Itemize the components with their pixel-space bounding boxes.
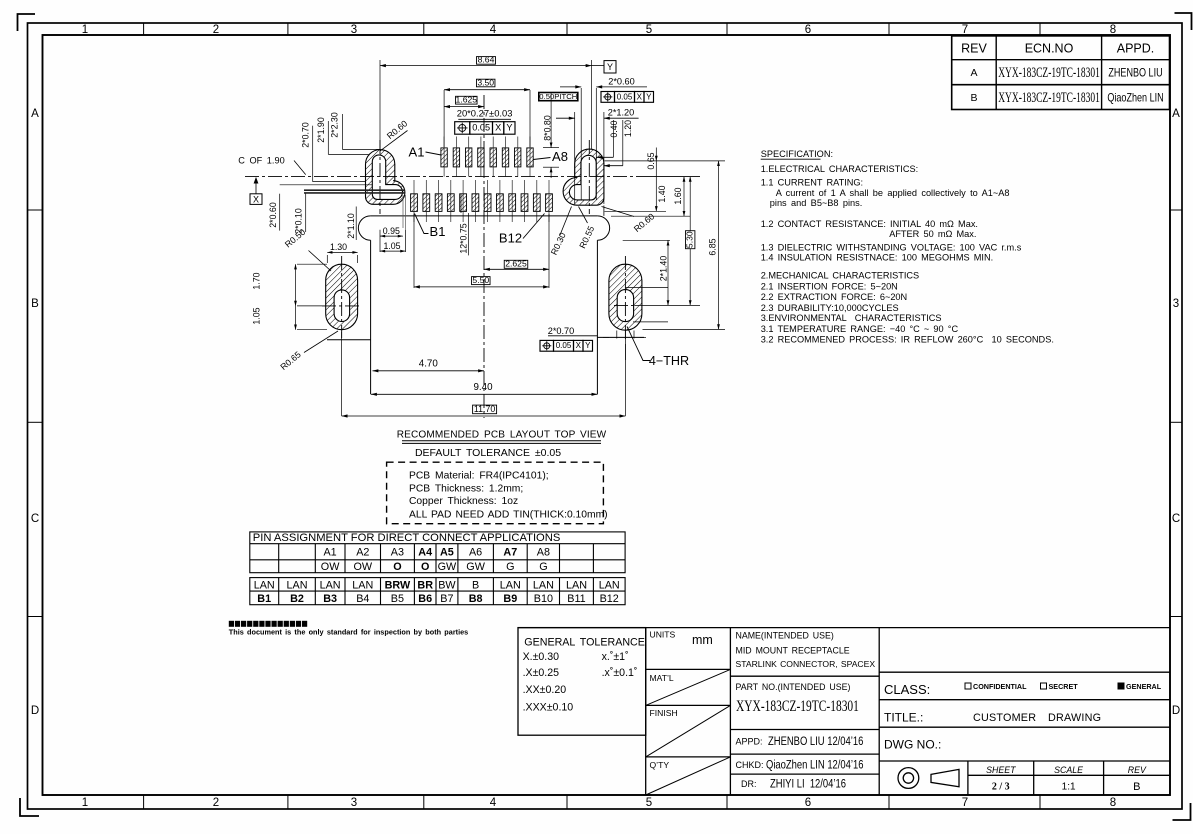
svg-text:4−THR: 4−THR	[649, 354, 689, 368]
svg-text:B: B	[472, 579, 479, 591]
svg-text:B12: B12	[499, 231, 522, 246]
svg-text:A2: A2	[356, 547, 369, 559]
svg-text:3.ENVIRONMENTAL CHARACTERISTI: 3.ENVIRONMENTAL CHARACTERISTICS	[761, 313, 942, 323]
svg-text:1.60: 1.60	[673, 187, 683, 204]
pin assignment table	[250, 532, 625, 605]
svg-text:.x˚±0.1˚: .x˚±0.1˚	[602, 667, 638, 679]
position frame shell slots	[601, 92, 654, 103]
svg-text:9.40: 9.40	[473, 382, 493, 393]
svg-text:.XXX±0.10: .XXX±0.10	[523, 702, 574, 714]
svg-text:GW: GW	[466, 561, 485, 573]
svg-text:11.70: 11.70	[474, 404, 495, 414]
svg-text:Copper Thickness: 1oz: Copper Thickness: 1oz	[409, 496, 518, 507]
svg-text:Y: Y	[646, 92, 652, 101]
dimension 2x0.70 bottom	[548, 326, 646, 339]
svg-text:2 / 3: 2 / 3	[992, 782, 1010, 793]
svg-text:SPECIFICATION:: SPECIFICATION:	[761, 149, 833, 159]
label B1	[415, 214, 446, 240]
svg-text:NAME(INTENDED USE): NAME(INTENDED USE)	[736, 631, 834, 641]
svg-text:8.64: 8.64	[478, 55, 495, 65]
svg-text:B10: B10	[534, 593, 553, 605]
svg-text:APPD.: APPD.	[1117, 42, 1155, 56]
svg-text:.XX±0.20: .XX±0.20	[523, 684, 567, 696]
dimension 2x0.10	[294, 194, 306, 234]
svg-text:8: 8	[1110, 24, 1116, 36]
right shell centerline	[588, 140, 590, 214]
svg-text:1.4 INSULATION RESISTNACE: 100: 1.4 INSULATION RESISTNACE: 100 MEGOHMS M…	[761, 253, 993, 263]
svg-text:MID MOUNT RECEPTACLE: MID MOUNT RECEPTACLE	[736, 646, 850, 656]
svg-text:7: 7	[962, 797, 968, 809]
radius R0.60 right	[602, 207, 657, 235]
right oval thru pad	[609, 256, 642, 342]
svg-text:LAN: LAN	[599, 579, 620, 591]
horizontal centerline	[245, 176, 648, 178]
svg-text:GENERAL TOLERANCE: GENERAL TOLERANCE	[524, 637, 645, 649]
svg-text:1.20: 1.20	[623, 120, 633, 137]
svg-text:3: 3	[351, 797, 357, 809]
specification text block	[761, 149, 1054, 344]
svg-text:Y: Y	[585, 341, 591, 350]
svg-text:BR: BR	[417, 579, 433, 591]
svg-text:D: D	[31, 705, 39, 717]
svg-text:GENERAL: GENERAL	[1126, 682, 1162, 691]
svg-text:B: B	[1133, 781, 1140, 793]
svg-text:12*0.75: 12*0.75	[459, 223, 469, 253]
svg-text:1.70: 1.70	[251, 272, 261, 289]
svg-text:B11: B11	[567, 593, 585, 605]
svg-text:QiaoZhen LIN: QiaoZhen LIN	[1107, 93, 1163, 105]
svg-text:A: A	[970, 67, 977, 79]
dimension 12x0.75	[459, 194, 469, 256]
svg-text:2*1.10: 2*1.10	[346, 213, 356, 239]
svg-text:2.3 DURABILITY:10,000CYCLES: 2.3 DURABILITY:10,000CYCLES	[761, 303, 899, 313]
svg-text:STARLINK CONNECTOR, SPACEX: STARLINK CONNECTOR, SPACEX	[736, 659, 876, 669]
svg-text:2.1 INSERTION FORCE: 5~20N: 2.1 INSERTION FORCE: 5~20N	[761, 282, 898, 292]
svg-text:PART NO.(INTENDED USE): PART NO.(INTENDED USE)	[736, 682, 851, 692]
svg-text:A8: A8	[537, 547, 550, 559]
svg-text:4.70: 4.70	[419, 359, 439, 370]
svg-text:X: X	[576, 341, 582, 350]
dimension 0.95	[380, 226, 403, 252]
svg-text:1: 1	[82, 797, 88, 809]
position frame thru holes	[540, 340, 593, 351]
svg-text:OW: OW	[354, 561, 373, 573]
svg-text:B5: B5	[391, 593, 404, 605]
pcb cutout outline	[358, 216, 609, 394]
dimension 1.05 oval	[251, 306, 327, 330]
svg-text:PIN ASSIGNMENT FOR DIRECT CONN: PIN ASSIGNMENT FOR DIRECT CONNECT APPLIC…	[253, 532, 561, 544]
radius R0.50	[283, 227, 331, 271]
label B12	[499, 214, 545, 246]
dimension 8.64 with datum Y	[380, 55, 616, 150]
svg-text:mm: mm	[692, 633, 713, 647]
svg-text:CONFIDENTIAL: CONFIDENTIAL	[973, 682, 1027, 691]
svg-text:pins and B5~B8 pins.: pins and B5~B8 pins.	[770, 198, 863, 208]
svg-text:LAN: LAN	[286, 579, 307, 591]
svg-text:LAN: LAN	[352, 579, 373, 591]
svg-text:0.05: 0.05	[472, 123, 490, 133]
svg-text:MAT’L: MAT’L	[650, 673, 674, 683]
svg-text:ZHENBO LIU: ZHENBO LIU	[1108, 68, 1162, 80]
svg-text:A3: A3	[391, 547, 404, 559]
svg-text:FINISH: FINISH	[650, 708, 678, 718]
sheet scale rev	[986, 765, 1147, 793]
svg-text:X: X	[495, 123, 501, 133]
extension lines gray	[403, 195, 406, 230]
dimension 11.70 boxed	[342, 332, 626, 416]
svg-text:3.2 RECOMMENED PROCESS: IR REF: 3.2 RECOMMENED PROCESS: IR REFLOW 260°C …	[761, 335, 1054, 345]
svg-text:6.85: 6.85	[708, 238, 718, 255]
radius R0.30	[549, 207, 572, 257]
dimension 1.70	[251, 264, 327, 306]
svg-text:BW: BW	[438, 579, 456, 591]
dimension 0.50PITCH	[539, 92, 578, 101]
svg-text:SCALE: SCALE	[1054, 765, 1083, 775]
svg-text:X.±0.30: X.±0.30	[523, 651, 560, 663]
dimension 5.30 boxed	[685, 177, 695, 306]
svg-text:QiaoZhen LIN 12/04’16: QiaoZhen LIN 12/04’16	[766, 759, 864, 772]
units material finish qty	[650, 630, 713, 771]
revision table	[952, 36, 1170, 110]
label A1	[409, 145, 442, 160]
svg-text:LAN: LAN	[320, 579, 341, 591]
svg-text:0.40: 0.40	[609, 120, 619, 137]
svg-text:1.30: 1.30	[330, 242, 347, 252]
svg-text:5: 5	[646, 797, 652, 809]
svg-text:20*0.27±0.03: 20*0.27±0.03	[457, 108, 513, 119]
dimension 5.50	[414, 214, 549, 288]
svg-text:2*0.70: 2*0.70	[548, 326, 575, 336]
svg-text:A1: A1	[323, 547, 336, 559]
svg-text:O: O	[421, 561, 429, 573]
svg-text:G: G	[506, 561, 514, 573]
svg-text:4: 4	[490, 797, 497, 809]
svg-text:1.3 DIELECTRIC WITHSTANDING VO: 1.3 DIELECTRIC WITHSTANDING VOLTAGE: 100…	[761, 243, 1022, 253]
svg-text:A: A	[31, 108, 39, 120]
svg-text:CLASS:: CLASS:	[884, 682, 930, 697]
dimension 4.70	[373, 359, 485, 371]
dimension 3.50	[444, 77, 530, 147]
svg-text:A: A	[1172, 108, 1180, 120]
radius R0.65	[278, 331, 338, 372]
svg-text:CHKD:: CHKD:	[736, 760, 764, 770]
svg-text:B: B	[970, 92, 977, 104]
svg-text:B12: B12	[600, 593, 619, 605]
dimension 1.60	[673, 177, 684, 217]
svg-text:LAN: LAN	[254, 579, 275, 591]
dimension 6.85	[708, 161, 719, 330]
dimension 20x0.27 and tolerance frame	[457, 108, 513, 120]
svg-text:7: 7	[962, 24, 968, 36]
dimension 1.20	[604, 120, 633, 166]
left oval thru pad	[322, 256, 362, 338]
svg-text:2.2 EXTRACTION FORCE: 6~20N: 2.2 EXTRACTION FORCE: 6~20N	[761, 292, 907, 302]
dimension 9.40	[371, 382, 597, 394]
left shell centerline	[379, 140, 381, 214]
svg-text:5: 5	[646, 24, 652, 36]
svg-text:1.1 CURRENT RATING:: 1.1 CURRENT RATING:	[761, 177, 863, 187]
svg-text:D: D	[1172, 705, 1180, 717]
name and part number	[736, 631, 876, 692]
dimension 2x0.60 left	[268, 194, 280, 231]
left shell pad	[366, 150, 405, 205]
svg-text:B2: B2	[290, 593, 304, 605]
svg-text:1.ELECTRICAL CHARACTERISTICS:: 1.ELECTRICAL CHARACTERISTICS:	[761, 164, 918, 174]
svg-text:TITLE.:: TITLE.:	[884, 711, 923, 725]
svg-text:LAN: LAN	[533, 579, 554, 591]
A row pads A1-A8	[441, 148, 533, 167]
pcb material dashed box	[387, 462, 608, 524]
svg-text:2.MECHANICAL CHARACTERISTICS: 2.MECHANICAL CHARACTERISTICS	[761, 270, 920, 280]
svg-text:ECN.NO: ECN.NO	[1025, 42, 1074, 56]
svg-text:DWG NO.:: DWG NO.:	[884, 738, 941, 752]
svg-text:ZHENBO LIU 12/04’16: ZHENBO LIU 12/04’16	[768, 735, 863, 748]
svg-text:6: 6	[805, 24, 811, 36]
svg-text:B4: B4	[356, 593, 369, 605]
svg-text:2: 2	[213, 24, 219, 36]
svg-text:LAN: LAN	[500, 579, 521, 591]
svg-text:LAN: LAN	[566, 579, 587, 591]
svg-text:0.50PITCH: 0.50PITCH	[539, 92, 577, 101]
pin assignment table text	[253, 532, 620, 605]
svg-text:B3: B3	[323, 593, 337, 605]
svg-text:ALL PAD NEED ADD TIN(THICK:0.1: ALL PAD NEED ADD TIN(THICK:0.10mm)	[409, 510, 608, 521]
emi ground strip 2x0.10	[304, 190, 405, 193]
svg-text:XYX-183CZ-19TC-18301: XYX-183CZ-19TC-18301	[998, 64, 1100, 81]
svg-text:DR:: DR:	[741, 779, 757, 789]
svg-text:B9: B9	[503, 593, 517, 605]
svg-text:SHEET: SHEET	[986, 765, 1016, 775]
svg-text:A1: A1	[409, 145, 425, 160]
title recommended pcb layout	[397, 430, 607, 444]
svg-text:2: 2	[213, 797, 219, 809]
svg-text:A7: A7	[503, 547, 517, 559]
svg-text:RECOMMENDED PCB LAYOUT TOP VIE: RECOMMENDED PCB LAYOUT TOP VIEW	[397, 430, 607, 441]
svg-text:1.05: 1.05	[251, 307, 261, 324]
dimension 0.65	[646, 148, 656, 170]
board edge segments	[327, 339, 371, 341]
svg-text:2*0.60: 2*0.60	[608, 77, 635, 87]
B row pads B1-B12	[411, 194, 553, 212]
svg-text:X: X	[637, 92, 643, 101]
svg-text:A current of 1 A shall be appl: A current of 1 A shall be applied collec…	[776, 188, 1010, 198]
svg-text:DEFAULT TOLERANCE ±0.05: DEFAULT TOLERANCE ±0.05	[415, 447, 561, 459]
svg-text:REV: REV	[961, 42, 987, 56]
svg-text:O: O	[393, 561, 401, 573]
svg-text:A5: A5	[440, 547, 454, 559]
svg-text:APPD:: APPD:	[736, 737, 763, 747]
svg-text:CUSTOMER: CUSTOMER	[973, 712, 1036, 724]
svg-text:2*1.20: 2*1.20	[608, 107, 635, 117]
label A8	[533, 149, 568, 164]
right shell pad	[563, 149, 604, 205]
dimension 2x1.20	[556, 107, 639, 204]
svg-text:0.65: 0.65	[646, 152, 656, 169]
svg-text:8: 8	[1110, 797, 1116, 809]
class row	[884, 682, 930, 697]
svg-text:1.625: 1.625	[456, 95, 478, 105]
svg-text:B1: B1	[430, 224, 446, 239]
svg-text:B7: B7	[440, 593, 453, 605]
svg-text:UNITS: UNITS	[650, 630, 676, 640]
svg-text:1.40: 1.40	[657, 185, 667, 202]
dimension 2x1.40	[658, 240, 668, 305]
svg-text:x.˚±1˚: x.˚±1˚	[602, 651, 629, 663]
svg-text:ZHIYI LI 12/04’16: ZHIYI LI 12/04’16	[770, 778, 846, 791]
datum C OF 1.90	[238, 155, 305, 174]
svg-text:4: 4	[490, 24, 497, 36]
svg-text:XYX-183CZ-19TC-18301: XYX-183CZ-19TC-18301	[736, 697, 859, 714]
svg-text:BRW: BRW	[385, 579, 411, 591]
dimension 2x0.60 right	[560, 77, 647, 201]
shell feature lines left	[280, 149, 380, 184]
svg-text:B8: B8	[469, 593, 483, 605]
svg-text:0.95: 0.95	[383, 226, 400, 236]
svg-text:A6: A6	[469, 547, 482, 559]
svg-text:REV: REV	[1128, 765, 1147, 775]
svg-text:This document is the only stan: This document is the only standard for i…	[229, 627, 468, 636]
svg-text:PCB Thickness: 1.2mm;: PCB Thickness: 1.2mm;	[409, 483, 523, 494]
dimension 2.625	[484, 214, 549, 288]
svg-text:0.05: 0.05	[617, 92, 633, 101]
svg-text:1.2 CONTACT RESISTANCE: INITIA: 1.2 CONTACT RESISTANCE: INITIAL 40 mΩ Ma…	[761, 219, 978, 229]
svg-text:2*1.40: 2*1.40	[658, 256, 668, 282]
dimension 2x1.10	[346, 207, 356, 241]
svg-text:3: 3	[351, 24, 357, 36]
svg-text:5.50: 5.50	[472, 275, 489, 285]
svg-text:X: X	[253, 194, 259, 204]
dimension 2x0.70 left	[301, 122, 313, 182]
svg-text:2*0.60: 2*0.60	[268, 202, 278, 228]
svg-text:.X±0.25: .X±0.25	[523, 667, 560, 679]
label 4-THR	[625, 327, 689, 369]
svg-text:G: G	[539, 561, 547, 573]
svg-text:A8: A8	[552, 149, 568, 164]
svg-text:1:1: 1:1	[1062, 782, 1076, 793]
dimension 1.05	[380, 230, 406, 252]
svg-text:SECRET: SECRET	[1049, 682, 1079, 691]
projection symbol	[898, 768, 959, 789]
dimension 2x2.30	[329, 112, 342, 149]
svg-text:B6: B6	[418, 593, 432, 605]
svg-text:2*1.90: 2*1.90	[316, 117, 326, 143]
svg-text:3.1 TEMPERATURE RANGE: −40 °C: 3.1 TEMPERATURE RANGE: −40 °C ~ 90 °C	[761, 324, 959, 334]
svg-text:OW: OW	[321, 561, 340, 573]
svg-text:C OF 1.90: C OF 1.90	[238, 155, 284, 165]
svg-text:2.625: 2.625	[505, 259, 527, 269]
svg-text:0.05: 0.05	[556, 341, 572, 350]
position frame A pads	[455, 122, 515, 135]
radius R0.55	[577, 207, 596, 250]
svg-text:1.05: 1.05	[383, 241, 400, 251]
dimension 2x1.90	[316, 117, 328, 154]
right reference lines	[605, 161, 726, 330]
svg-text:AFTER 50 mΩ Max.: AFTER 50 mΩ Max.	[889, 229, 976, 239]
general tolerance text	[523, 637, 645, 714]
svg-text:3: 3	[1173, 298, 1179, 310]
svg-text:C: C	[31, 513, 39, 525]
dimension 1.40	[656, 161, 667, 211]
svg-text:2*2.30: 2*2.30	[329, 112, 339, 138]
svg-text:GW: GW	[438, 561, 457, 573]
svg-text:3.50: 3.50	[477, 77, 494, 87]
datum X	[250, 177, 262, 205]
radius R0.60 top left	[380, 118, 409, 151]
dimension 1.30	[327, 242, 357, 263]
svg-text:Y: Y	[506, 123, 512, 133]
title row	[884, 711, 1101, 752]
dimension 8x0.80	[543, 93, 560, 178]
svg-text:C: C	[1172, 513, 1180, 525]
approval rows	[736, 737, 764, 790]
svg-text:5.30: 5.30	[685, 231, 695, 248]
title block lines	[518, 628, 1170, 795]
svg-text:A4: A4	[418, 547, 432, 559]
svg-text:XYX-183CZ-19TC-18301: XYX-183CZ-19TC-18301	[998, 89, 1100, 106]
svg-text:PCB Material: FR4(IPC4101);: PCB Material: FR4(IPC4101);	[409, 470, 549, 481]
svg-text:6: 6	[805, 797, 811, 809]
svg-text:2*0.10: 2*0.10	[294, 208, 304, 234]
dimension 1.625	[444, 95, 484, 107]
B pad pin lines	[414, 180, 549, 222]
svg-text:2*0.70: 2*0.70	[301, 122, 311, 148]
dimension 0.40	[597, 120, 619, 216]
svg-text:B: B	[31, 298, 39, 310]
svg-text:B1: B1	[257, 593, 271, 605]
inspection note chinese	[229, 621, 307, 627]
svg-text:1: 1	[82, 24, 88, 36]
svg-text:Q’TY: Q’TY	[650, 760, 670, 770]
vertical centerline	[483, 95, 485, 418]
svg-text:DRAWING: DRAWING	[1048, 712, 1101, 724]
svg-text:Y: Y	[607, 62, 613, 72]
A pad pin lines	[444, 137, 530, 177]
